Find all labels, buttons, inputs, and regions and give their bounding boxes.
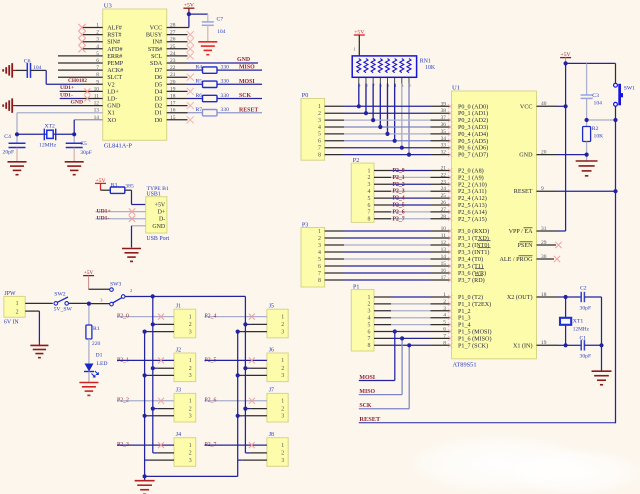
svg-text:ALF#: ALF# [107,26,122,32]
svg-text:4: 4 [443,313,446,319]
svg-text:P2_1: P2_1 [393,175,405,181]
svg-text:1: 1 [318,229,321,235]
svg-text:JPW: JPW [4,291,16,297]
svg-text:6: 6 [443,327,446,333]
svg-text:P2_2 (A10): P2_2 (A10) [458,181,487,188]
svg-text:1: 1 [189,358,192,364]
svg-text:C2: C2 [580,286,587,292]
svg-text:6: 6 [318,264,321,270]
svg-text:C7: C7 [217,17,224,23]
svg-text:4: 4 [318,250,321,256]
svg-text:CH0182: CH0182 [68,78,87,84]
svg-text:IN#: IN# [153,40,163,46]
svg-text:P2_2: P2_2 [393,182,405,188]
svg-text:P2_7: P2_7 [205,442,217,448]
svg-text:PEMP: PEMP [107,61,124,67]
svg-text:C4: C4 [4,134,11,140]
svg-text:3: 3 [189,373,192,379]
svg-text:P2_5: P2_5 [205,357,217,363]
svg-text:P0_4 (AD4): P0_4 (AD4) [458,131,488,138]
svg-text:GND: GND [107,104,121,110]
svg-text:30pF: 30pF [580,305,592,311]
svg-text:X2 (OUT): X2 (OUT) [507,294,533,301]
svg-text:22: 22 [441,172,447,178]
svg-text:P3_4 (T0): P3_4 (T0) [458,256,483,263]
svg-text:330: 330 [221,93,230,99]
svg-text:GL841A-P: GL841A-P [104,142,133,149]
svg-text:VPP / EA: VPP / EA [509,229,534,235]
svg-text:2: 2 [368,302,371,308]
svg-text:J5: J5 [269,304,274,310]
svg-text:SW3: SW3 [110,281,121,287]
svg-text:330: 330 [221,65,230,71]
svg-text:D3: D3 [155,97,163,103]
svg-text:12: 12 [441,240,447,246]
svg-text:J7: J7 [269,388,274,394]
svg-text:P2: P2 [353,158,359,164]
svg-text:10K: 10K [425,65,436,71]
svg-text:P2_1 (A9): P2_1 (A9) [458,174,484,181]
svg-text:XO: XO [107,118,116,124]
svg-text:24: 24 [441,186,447,192]
svg-text:1: 1 [368,168,371,174]
svg-text:11: 11 [441,233,447,239]
svg-text:LD+: LD+ [107,89,119,95]
svg-text:P2_4 (A12): P2_4 (A12) [458,195,487,202]
svg-text:USB Port: USB Port [146,236,169,242]
svg-text:330: 330 [221,107,230,113]
svg-text:8: 8 [368,343,371,349]
svg-text:P2_6: P2_6 [393,209,405,215]
svg-text:R7: R7 [196,107,203,113]
svg-text:2: 2 [318,111,321,117]
svg-text:36: 36 [441,122,447,128]
svg-text:3: 3 [318,118,321,124]
svg-text:AFD#: AFD# [107,47,122,53]
svg-text:C3: C3 [592,93,599,99]
svg-text:330: 330 [221,79,230,85]
svg-text:SCK: SCK [239,93,252,99]
svg-text:10K: 10K [594,134,605,140]
svg-text:220: 220 [92,341,101,347]
svg-text:SIN#: SIN# [107,40,120,46]
svg-text:14: 14 [441,254,447,260]
svg-text:23: 23 [441,179,447,185]
svg-text:P1_4: P1_4 [458,323,471,329]
svg-text:8: 8 [368,217,371,223]
svg-text:P2_0: P2_0 [117,314,129,320]
svg-text:37: 37 [441,115,447,121]
svg-text:3: 3 [443,306,446,312]
svg-text:8: 8 [443,340,446,346]
svg-text:21: 21 [441,166,447,172]
svg-text:ERR#: ERR# [107,54,122,60]
svg-text:MISO: MISO [239,65,255,71]
svg-text:1: 1 [189,443,192,449]
svg-text:R4: R4 [196,65,203,71]
svg-text:P0: P0 [302,93,308,99]
svg-text:P2_7: P2_7 [393,216,405,222]
svg-text:R6: R6 [196,93,203,99]
svg-text:3: 3 [318,243,321,249]
svg-text:J3: J3 [176,388,181,394]
svg-text:R3: R3 [111,182,118,188]
svg-text:2: 2 [368,175,371,181]
svg-text:P1: P1 [353,284,359,290]
svg-text:R5: R5 [196,79,203,85]
svg-text:13: 13 [441,247,447,253]
svg-text:35: 35 [441,129,447,135]
svg-text:7: 7 [318,271,321,277]
svg-text:AT89S51: AT89S51 [453,361,477,368]
svg-text:P1_1 (T2EX): P1_1 (T2EX) [458,301,491,308]
svg-text:8: 8 [318,152,321,158]
svg-text:3: 3 [189,329,192,335]
svg-text:385: 385 [125,183,134,189]
svg-text:R1: R1 [93,326,100,332]
svg-text:17: 17 [441,275,447,281]
svg-text:2: 2 [16,309,19,315]
svg-text:UD1-: UD1- [97,216,110,222]
svg-text:12MHz: 12MHz [573,327,590,333]
svg-text:7: 7 [368,210,371,216]
svg-text:ALE / PROG: ALE / PROG [499,257,533,263]
svg-text:P2_3 (A11): P2_3 (A11) [458,188,487,195]
svg-text:UD1+: UD1+ [60,85,74,91]
svg-text:XT2: XT2 [45,123,56,129]
svg-text:1: 1 [443,292,446,298]
svg-text:2: 2 [189,366,192,372]
svg-text:P1_2: P1_2 [458,309,471,315]
svg-text:J6: J6 [269,347,274,353]
svg-text:27: 27 [441,207,447,213]
svg-text:3: 3 [281,414,284,420]
svg-text:D+: D+ [158,210,166,216]
svg-text:J8: J8 [269,432,274,438]
svg-text:RESET: RESET [359,416,381,423]
svg-text:LED: LED [97,361,108,367]
svg-text:D0: D0 [155,118,163,124]
svg-text:C1: C1 [580,335,587,341]
svg-text:3: 3 [189,414,192,420]
svg-text:ACK#: ACK# [107,68,123,74]
svg-text:VCC: VCC [520,104,533,110]
svg-text:5: 5 [368,322,371,328]
svg-text:6: 6 [318,139,321,145]
svg-text:16: 16 [441,268,447,274]
svg-text:P0_5 (AD5): P0_5 (AD5) [458,138,488,145]
svg-text:33: 33 [441,143,447,149]
svg-text:3: 3 [368,182,371,188]
svg-text:6: 6 [368,203,371,209]
svg-text:P0_1 (AD1): P0_1 (AD1) [458,110,488,117]
svg-text:12MHz: 12MHz [39,142,57,148]
svg-text:7: 7 [443,333,446,339]
svg-text:P2_4: P2_4 [205,314,217,320]
svg-text:SLCT: SLCT [107,75,122,81]
svg-text:1: 1 [281,358,284,364]
svg-text:MISO: MISO [359,389,375,395]
svg-text:4: 4 [368,316,371,322]
svg-text:P3_3 (INT1): P3_3 (INT1) [458,249,489,256]
svg-text:J2: J2 [176,347,181,353]
svg-text:1: 1 [281,399,284,405]
svg-text:P2_6: P2_6 [205,398,217,404]
svg-text:X1 (IN): X1 (IN) [513,342,533,349]
svg-text:5: 5 [368,196,371,202]
svg-text:1: 1 [368,295,371,301]
svg-text:4: 4 [368,189,371,195]
svg-text:UD1-: UD1- [60,92,73,98]
svg-text:6: 6 [368,329,371,335]
svg-text:C5: C5 [80,141,87,147]
svg-text:D-: D- [159,217,165,223]
svg-text:3: 3 [368,309,371,315]
svg-text:1: 1 [189,399,192,405]
svg-text:SCK: SCK [359,403,372,409]
svg-text:26: 26 [441,200,447,206]
svg-text:5: 5 [443,320,446,326]
svg-text:P0_0 (AD0): P0_0 (AD0) [458,103,488,110]
svg-text:1: 1 [354,47,356,52]
svg-text:D6: D6 [155,75,163,81]
svg-text:GND: GND [519,153,533,159]
svg-text:MOSI: MOSI [239,79,255,85]
svg-text:P1_7 (SCK): P1_7 (SCK) [458,342,488,349]
svg-text:4: 4 [318,125,321,131]
svg-text:2: 2 [281,366,284,372]
svg-text:P2_7 (A15): P2_7 (A15) [458,216,487,223]
svg-text:UD1+: UD1+ [97,208,111,214]
svg-text:D1: D1 [96,353,103,359]
svg-text:P3: P3 [302,223,308,229]
svg-text:D1: D1 [155,111,163,117]
svg-text:2: 2 [443,299,446,305]
svg-text:5V_SW: 5V_SW [54,307,73,313]
svg-text:BUSY: BUSY [146,33,163,39]
svg-text:P2_6 (A14): P2_6 (A14) [458,209,487,216]
svg-text:7: 7 [368,336,371,342]
svg-text:D2: D2 [155,104,163,110]
svg-text:X1: X1 [107,111,115,117]
svg-text:RESET: RESET [514,189,533,195]
svg-text:2: 2 [281,451,284,457]
svg-text:P1_6 (MISO): P1_6 (MISO) [458,335,492,342]
svg-text:SCL: SCL [151,54,162,60]
svg-text:D5: D5 [155,82,163,88]
svg-text:P2_1: P2_1 [117,357,129,363]
svg-text:P2_0 (A8): P2_0 (A8) [458,168,484,175]
svg-text:P2_4: P2_4 [393,196,405,202]
svg-text:LD-: LD- [107,97,117,103]
svg-text:30pF: 30pF [80,150,92,156]
svg-text:1: 1 [281,443,284,449]
svg-text:3: 3 [281,373,284,379]
svg-text:MOSI: MOSI [359,375,375,381]
svg-text:2: 2 [281,406,284,412]
svg-text:P2_2: P2_2 [117,398,129,404]
svg-text:2: 2 [189,451,192,457]
svg-text:STB#: STB# [148,47,162,53]
svg-text:RESET: RESET [239,107,258,113]
svg-text:P0_7 (AD7): P0_7 (AD7) [458,152,488,159]
svg-text:20pF: 20pF [3,149,15,155]
svg-text:1: 1 [318,104,321,110]
svg-text:R2: R2 [592,126,599,132]
svg-text:2: 2 [130,288,132,293]
svg-text:P2_5 (A13): P2_5 (A13) [458,202,487,209]
svg-text:P2_5: P2_5 [393,203,405,209]
svg-text:P1_5 (MOSI): P1_5 (MOSI) [458,329,492,336]
svg-text:GND: GND [237,57,250,63]
svg-text:3: 3 [281,458,284,464]
svg-text:SW1: SW1 [624,85,635,91]
svg-text:XT1: XT1 [573,319,584,325]
svg-text:7: 7 [318,146,321,152]
svg-text:30pF: 30pF [580,353,592,359]
svg-text:2: 2 [281,322,284,328]
svg-text:VCC: VCC [150,26,163,32]
svg-text:38: 38 [441,108,447,114]
svg-text:RST#: RST# [107,33,121,39]
svg-text:P2_3: P2_3 [393,189,405,195]
svg-text:25: 25 [441,193,447,199]
svg-text:2: 2 [189,322,192,328]
svg-text:5: 5 [318,132,321,138]
svg-text:+5V: +5V [155,203,166,209]
svg-text:U1: U1 [452,85,460,92]
svg-text:3: 3 [281,329,284,335]
svg-text:3: 3 [189,458,192,464]
svg-text:15: 15 [441,261,447,267]
svg-text:104: 104 [594,101,603,107]
svg-text:1: 1 [189,314,192,320]
svg-text:PSEN: PSEN [518,243,534,249]
svg-text:J1: J1 [176,304,181,310]
svg-text:GND: GND [71,99,84,105]
svg-text:P0_6 (AD6): P0_6 (AD6) [458,145,488,152]
svg-text:SW2: SW2 [54,291,65,297]
svg-text:28: 28 [441,214,447,220]
svg-text:D7: D7 [155,68,163,74]
svg-text:1: 1 [16,301,19,307]
svg-text:P1_3: P1_3 [458,316,471,322]
svg-text:2: 2 [189,406,192,412]
svg-text:D4: D4 [155,89,163,95]
svg-text:P3_0 (RXD): P3_0 (RXD) [458,228,489,235]
svg-text:J4: J4 [176,432,181,438]
svg-text:RN1: RN1 [420,59,431,65]
svg-text:V2: V2 [107,82,115,88]
svg-text:8: 8 [318,278,321,284]
svg-text:2: 2 [318,236,321,242]
svg-text:104: 104 [217,29,226,35]
svg-text:C6: C6 [24,59,31,65]
svg-text:U3: U3 [104,3,113,10]
svg-text:10: 10 [441,226,447,232]
svg-text:P0_2 (AD2): P0_2 (AD2) [458,117,488,124]
svg-text:32: 32 [441,150,447,156]
svg-text:1: 1 [281,314,284,320]
svg-text:P2_3: P2_3 [117,442,129,448]
svg-text:USB1: USB1 [146,191,160,197]
svg-text:GND: GND [152,224,166,230]
svg-text:P3_7 (RD): P3_7 (RD) [458,277,485,284]
svg-text:P1_0 (T2): P1_0 (T2) [458,294,483,301]
svg-text:SDA: SDA [150,61,163,67]
svg-text:34: 34 [441,136,447,142]
svg-text:6V IN: 6V IN [4,320,20,326]
svg-text:P0_3 (AD3): P0_3 (AD3) [458,124,488,131]
svg-text:P2_0: P2_0 [393,168,405,174]
svg-text:39: 39 [441,101,447,107]
svg-text:5: 5 [318,257,321,263]
